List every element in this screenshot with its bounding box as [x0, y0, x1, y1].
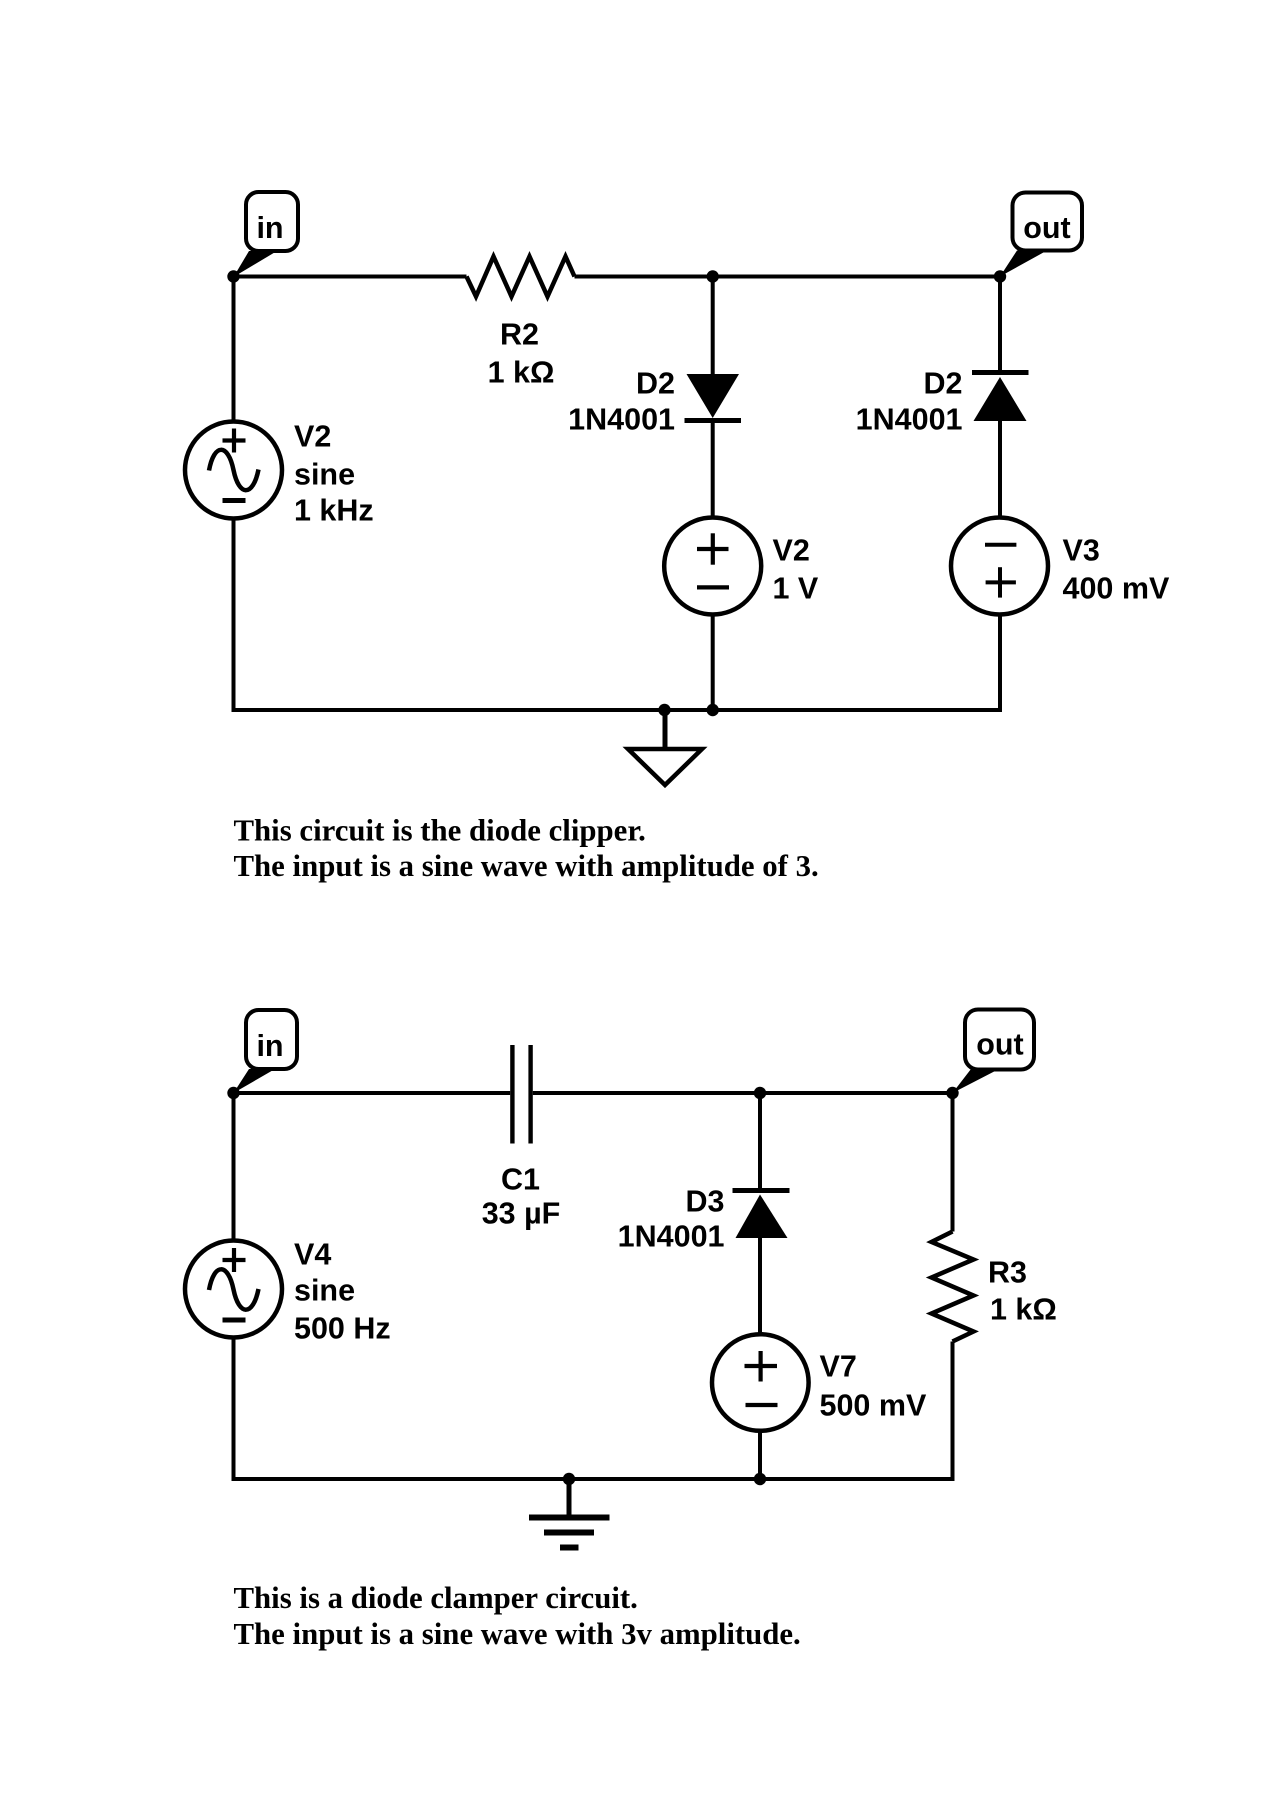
svg-text:sine: sine	[294, 1274, 355, 1308]
svg-text:D2: D2	[636, 367, 675, 401]
R3 labels	[988, 1256, 1057, 1327]
svg-text:This is a diode clamper circui: This is a diode clamper circuit.	[234, 1581, 638, 1615]
svg-text:33 µF: 33 µF	[482, 1197, 561, 1231]
svg-text:R2: R2	[500, 318, 539, 352]
D2 shunt labels	[568, 367, 675, 437]
V7 labels	[820, 1350, 927, 1423]
voltage source V2 1 V (clip level)	[664, 518, 761, 711]
D2 right labels	[856, 367, 963, 437]
V3 labels	[1063, 534, 1170, 606]
node in1 junction dot	[227, 270, 239, 282]
svg-text:V2: V2	[773, 534, 810, 568]
resistor R2	[467, 257, 575, 297]
svg-text:500 mV: 500 mV	[820, 1389, 927, 1423]
wire: bottom rail circuit 2	[232, 1477, 955, 1481]
svg-text:D3: D3	[686, 1185, 725, 1219]
R2 reference label	[500, 318, 539, 352]
node in2 junction dot	[227, 1087, 239, 1099]
diode D2 (series with V3, cathode up)	[972, 277, 1029, 521]
node B junction dot (top of D3 branch)	[754, 1087, 766, 1099]
voltage source V7 500 mV	[712, 1334, 809, 1479]
svg-text:The input is a sine wave with: The input is a sine wave with 3v amplitu…	[234, 1617, 801, 1651]
svg-text:This circuit is the diode clip: This circuit is the diode clipper.	[234, 814, 646, 848]
net label "in" (circuit 2)	[234, 1010, 298, 1093]
net label "out" (circuit 2)	[953, 1010, 1035, 1094]
svg-text:1N4001: 1N4001	[856, 403, 963, 437]
wire: top rail right segment (node B to out node)	[760, 1091, 953, 1095]
V2 1V labels	[773, 534, 819, 606]
wire: bottom rail circuit 1	[232, 708, 1003, 712]
wire: top rail middle segment (C1 to node B)	[533, 1091, 760, 1095]
net label "in" (circuit 1)	[234, 192, 299, 277]
capacitor C1	[512, 1045, 530, 1144]
node: V7 branch bottom junction dot	[754, 1473, 766, 1485]
node out1 junction dot	[994, 270, 1006, 282]
C1 value label 33 uF	[482, 1197, 561, 1231]
wire: top rail right segment (node A to out node)	[713, 275, 1000, 279]
voltage source V2 sine 1 kHz (input source)	[185, 277, 282, 713]
voltage source V4 sine 500 Hz (input source)	[185, 1093, 282, 1481]
svg-text:500 Hz: 500 Hz	[294, 1312, 391, 1346]
ground symbol circuit 1	[628, 710, 702, 785]
node out2 junction dot	[946, 1087, 958, 1099]
earth ground symbol circuit 2	[529, 1479, 610, 1548]
diode D2 (shunt branch, cathode down)	[685, 277, 742, 518]
svg-text:C1: C1	[501, 1163, 540, 1197]
svg-text:The input is a sine wave with: The input is a sine wave with amplitude …	[234, 849, 819, 883]
D3 labels	[618, 1185, 725, 1254]
node: ground tap junction dot	[658, 704, 670, 716]
resistor R3 (vertical)	[932, 1093, 974, 1481]
node: V2 branch bottom junction dot	[707, 704, 719, 716]
wire: top rail middle segment (R2 to node A)	[575, 275, 713, 279]
svg-text:out: out	[1023, 211, 1070, 245]
svg-text:1 kΩ: 1 kΩ	[990, 1293, 1057, 1327]
svg-text:V7: V7	[820, 1350, 857, 1384]
svg-text:1 kHz: 1 kHz	[294, 494, 374, 528]
svg-text:1N4001: 1N4001	[568, 403, 675, 437]
node: ground tap junction dot circuit 2	[563, 1473, 575, 1485]
svg-text:D2: D2	[924, 367, 963, 401]
svg-text:1N4001: 1N4001	[618, 1220, 725, 1254]
wire: top rail left segment (in node to R2)	[234, 275, 467, 279]
svg-text:out: out	[976, 1028, 1023, 1062]
R2 value label 1 kOhm	[488, 356, 555, 390]
svg-text:V3: V3	[1063, 534, 1100, 568]
svg-text:1 V: 1 V	[773, 572, 819, 606]
svg-text:in: in	[256, 211, 283, 245]
node A junction dot (top of D2 shunt branch)	[707, 270, 719, 282]
caption circuit 2 line 2	[234, 1617, 801, 1651]
svg-text:V2: V2	[294, 420, 331, 454]
caption circuit 1 line 2	[234, 849, 819, 883]
svg-text:400 mV: 400 mV	[1063, 572, 1170, 606]
diode D3 (cathode up)	[733, 1093, 790, 1335]
svg-text:R3: R3	[988, 1256, 1027, 1290]
wire: top rail left segment (in node to C1)	[234, 1091, 511, 1095]
svg-text:V4: V4	[294, 1238, 331, 1272]
svg-text:in: in	[256, 1029, 283, 1063]
svg-text:sine: sine	[294, 458, 355, 492]
V4 labels	[294, 1238, 391, 1346]
C1 reference label	[501, 1163, 540, 1197]
caption circuit 2 line 1	[234, 1581, 638, 1615]
svg-text:1 kΩ: 1 kΩ	[488, 356, 555, 390]
voltage source V3 400 mV	[951, 518, 1048, 713]
V2 sine source labels	[294, 420, 374, 528]
net label "out" (circuit 1)	[1000, 193, 1082, 277]
caption circuit 1 line 1	[234, 814, 646, 848]
